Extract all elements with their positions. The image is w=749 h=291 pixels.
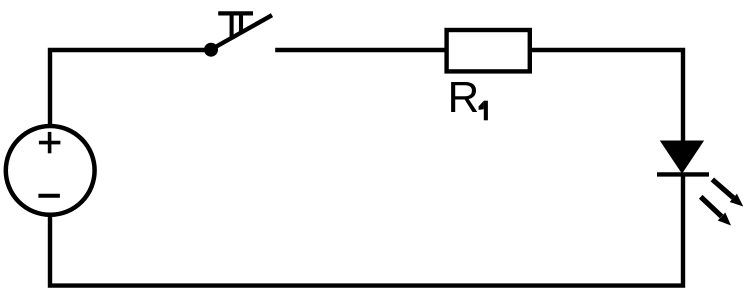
svg-text:R: R [448,73,480,122]
